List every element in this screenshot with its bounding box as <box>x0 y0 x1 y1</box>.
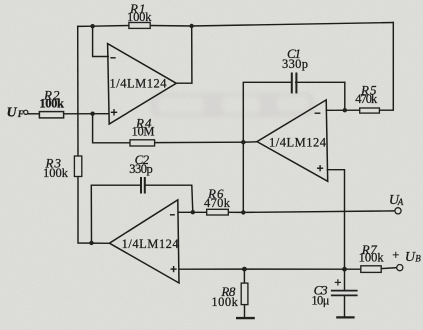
resistor R1 <box>129 23 150 29</box>
resistor R6 <box>207 209 229 215</box>
capacitor C2 <box>141 177 145 194</box>
wire: R5 left to op-amp2 inverting input <box>326 109 359 111</box>
op-amp U3 1/4LM124 (mirrored, apex left) <box>109 200 179 283</box>
ground (R8) <box>236 317 255 319</box>
wire: C3 bottom to ground <box>344 296 346 317</box>
wire: bottom bias net <box>179 268 360 270</box>
resistor R5 <box>360 108 380 113</box>
wire: op-amp3 inverting input to R6 <box>178 211 207 213</box>
wire: C1 top right branch <box>296 81 345 83</box>
wire: R3 bottom to op3 output node <box>78 177 109 244</box>
op-amp U2 1/4LM124 (mirrored, apex left) <box>257 100 328 181</box>
wire: C2 left riser from op3 output node <box>91 185 140 243</box>
wire: op-amp1 output to top net <box>176 26 192 83</box>
wire: R6 right through D7 to UA terminal <box>228 211 394 213</box>
terminal UA <box>395 208 401 214</box>
wire: top net, R1 right to top-right corner <box>150 23 393 27</box>
wire: R2 to op-amp1 non-inverting input <box>64 113 108 115</box>
wire: R7 right to UB terminal <box>381 267 396 270</box>
resistor R4 <box>130 140 155 146</box>
resistor R3 (vertical) <box>74 156 81 177</box>
node: bias net / R8 <box>242 267 247 272</box>
capacitor C1 <box>292 73 297 94</box>
node: UA net junction <box>241 210 245 214</box>
node: op2 output <box>241 140 245 144</box>
resistor R7 <box>361 266 381 273</box>
node: op3 output <box>89 241 93 245</box>
wire: op-amp2 apex to output node D8 <box>243 141 257 143</box>
capacitor C3 (electrolytic, polarized) <box>331 291 358 296</box>
wire: R4 right to op-amp2 output node <box>155 141 244 143</box>
wire: C3 drop <box>344 269 346 290</box>
wire: UF terminal to R2 <box>28 113 39 115</box>
wire: left rail from top corner down to R3 <box>77 26 79 156</box>
node junction dots <box>89 24 347 272</box>
wire: C2 right to drop down to op3 inverting node <box>145 185 193 212</box>
wire: R8 bottom to ground <box>244 305 246 318</box>
wire: R8 drop <box>243 269 245 283</box>
wire: D1 drop to op-amp1 inverting input <box>93 26 109 56</box>
node: op1 output at top net <box>189 24 193 28</box>
ground (C3) <box>336 316 354 318</box>
resistor R8 (vertical) <box>241 283 248 305</box>
wire: top net, left segment to R1 <box>78 25 129 28</box>
wire: C1 top left branch <box>243 82 291 142</box>
wire: node B drop to R4 <box>93 114 130 143</box>
wire: D8 down to UA net <box>242 142 244 212</box>
node: top net / op1 inverting <box>90 24 94 28</box>
node: op3 inverting input <box>191 210 195 214</box>
node: op1 non-inverting input <box>90 112 94 116</box>
resistor R2 <box>39 112 63 118</box>
terminal UB <box>397 265 403 271</box>
wire: op-amp2 non-inverting input over and down to bias net <box>327 170 344 270</box>
wire: right rail down to R5 <box>379 23 393 111</box>
wire: C1 right branch down to inverting node <box>344 82 346 110</box>
terminal UF <box>24 110 28 114</box>
node: bias net / C3 <box>342 267 347 272</box>
op-amp U1 1/4LM124 <box>108 44 177 124</box>
node: op2 inverting input <box>343 108 347 112</box>
